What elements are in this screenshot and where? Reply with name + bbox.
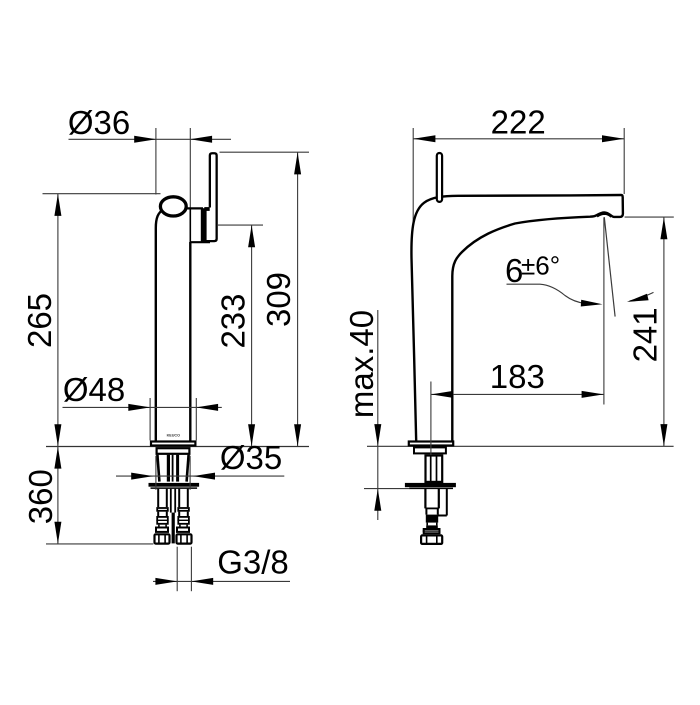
washer side underline — [409, 487, 453, 489]
washer side — [405, 483, 456, 487]
extension line dim 309 top — [220, 151, 310, 153]
offset tube right (stud side view) — [446, 489, 448, 516]
mounting washer front — [149, 483, 200, 487]
svg-text:222: 222 — [491, 103, 546, 140]
hose side nut facet lines — [426, 536, 428, 545]
base plate side — [409, 442, 453, 446]
base plate front — [151, 442, 195, 446]
svg-text:G3/8: G3/8 — [217, 544, 289, 581]
lever junction hook — [204, 207, 209, 211]
extension line dim 265 top — [43, 193, 161, 195]
tapered bundle right slant — [187, 455, 189, 482]
tapered bundle inner bar 3 — [176, 455, 179, 482]
hose side dark band — [426, 525, 438, 528]
shank rectangle below counter — [157, 448, 190, 454]
spout end ellipse — [160, 197, 186, 216]
central threaded stud — [170, 489, 172, 513]
countertop line right — [367, 445, 674, 447]
faucet body side outline — [411, 195, 622, 446]
lever handle front — [207, 153, 217, 241]
svg-text:max.40: max.40 — [343, 310, 380, 418]
hose side view — [424, 489, 426, 509]
svg-text:±6°: ±6° — [521, 251, 560, 281]
central threaded stud lower dark bar — [172, 513, 175, 544]
hose side segment edges — [425, 508, 427, 514]
svg-text:Ø48: Ø48 — [63, 371, 125, 408]
countertop line left — [46, 446, 309, 448]
svg-text:241: 241 — [627, 307, 664, 362]
left supply hose — [155, 489, 170, 545]
svg-text:360: 360 — [22, 469, 59, 524]
threaded tube inner line 1 — [430, 454, 432, 483]
tapered bundle inner bar 2 — [172, 455, 174, 482]
hose side right edge — [438, 489, 440, 509]
extension lines dim 222 — [412, 128, 414, 223]
cartridge housing top line — [187, 207, 204, 209]
vertical ref line from aerator — [603, 217, 605, 404]
lever pin side — [437, 153, 442, 202]
hose side collar box — [424, 529, 440, 533]
hose side black block — [426, 515, 438, 523]
svg-text:KEUCO: KEUCO — [167, 433, 180, 437]
aerator inner arc — [597, 214, 612, 217]
centerline body side — [430, 382, 432, 456]
threaded tube inner line 2 — [436, 454, 438, 483]
extension line dim 233 top — [218, 224, 263, 226]
cartridge housing bottom line — [190, 241, 211, 243]
svg-text:Ø35: Ø35 — [220, 439, 282, 476]
flange below counter side — [414, 447, 446, 453]
hose side hex nut — [421, 535, 442, 544]
Ø36 right extension line — [189, 128, 191, 208]
svg-text:233: 233 — [215, 293, 252, 348]
right supply hose — [177, 489, 192, 545]
central threaded stud right edge — [174, 489, 176, 513]
faucet body front: right edge — [189, 242, 191, 446]
hose side narrow gap edges — [426, 523, 428, 526]
angle arc right segment — [630, 292, 654, 301]
svg-text:265: 265 — [21, 293, 58, 348]
tapered bundle inner bar 1 — [167, 455, 170, 482]
threaded tube side — [426, 456, 443, 482]
svg-text:309: 309 — [260, 272, 297, 327]
faucet body front: left edge — [156, 210, 164, 446]
svg-text:183: 183 — [490, 358, 545, 395]
water stream 6deg line — [604, 217, 615, 316]
svg-text:Ø36: Ø36 — [68, 104, 130, 141]
angle arc right arrowhead — [627, 294, 649, 302]
extension lines dim Ø36 — [155, 128, 157, 195]
mounting washer underline front — [151, 487, 198, 489]
angle leader arrowhead left — [581, 300, 603, 307]
222 right extension line — [623, 128, 625, 194]
tapered hose bundle region — [157, 455, 159, 482]
faucet body front: right edge upper thin segment — [189, 208, 191, 242]
offset tube bottom — [438, 515, 447, 517]
hose side collar line — [425, 507, 438, 509]
lever hub dark bar — [201, 208, 207, 242]
